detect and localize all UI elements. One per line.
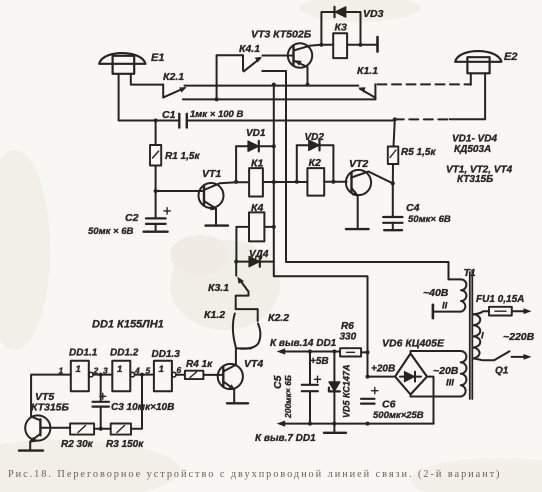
wire gate2 out to gate3	[135, 374, 154, 376]
svg-text:II: II	[442, 301, 448, 312]
wire +20V rail to bridge	[368, 376, 396, 378]
transformer T1 winding II	[461, 279, 466, 311]
wire E2 left lead	[470, 73, 472, 85]
svg-text:50мк × 6В: 50мк × 6В	[88, 226, 134, 237]
svg-text:VD3: VD3	[363, 8, 384, 20]
wire contacts to VT4 collector	[236, 347, 251, 365]
svg-text:К1.1: К1.1	[357, 65, 378, 77]
transistor VT3	[288, 43, 322, 84]
node rail C5	[308, 422, 312, 426]
svg-text:Т1: Т1	[464, 267, 476, 279]
wire R4 to VT4 base	[203, 374, 223, 376]
speaker E1	[99, 53, 145, 74]
svg-text:330: 330	[340, 332, 357, 343]
wire VD2 legs	[297, 145, 334, 182]
transistor VT1	[199, 182, 237, 224]
fuse FU1	[489, 307, 512, 316]
node VT3 emitter on bus	[306, 83, 310, 87]
svg-text:VT1: VT1	[202, 168, 221, 180]
svg-text:К1: К1	[251, 158, 263, 170]
svg-text:С1: С1	[162, 109, 176, 121]
svg-text:200мк× 6Б: 200мк× 6Б	[283, 375, 293, 419]
svg-text:R4 1к: R4 1к	[186, 359, 213, 370]
bridge rectifier VD6	[395, 354, 427, 395]
ground VT5	[19, 449, 43, 451]
wire bottom rail with arrow to DD1 pin 7	[277, 421, 434, 427]
relay K2	[307, 168, 324, 196]
svg-text:VT4: VT4	[244, 358, 263, 370]
node VD1 right	[272, 144, 276, 148]
svg-text:КТ315Б: КТ315Б	[31, 402, 70, 414]
capacitor C6	[361, 388, 378, 404]
logic gate DD1.3	[154, 361, 176, 391]
svg-text:КД503А: КД503А	[454, 144, 491, 155]
wire dashed line to E2 lower	[395, 118, 450, 120]
wire bus upper line	[185, 85, 359, 87]
svg-text:Q1: Q1	[495, 366, 509, 377]
node VT2 collector	[391, 181, 395, 185]
svg-text:С6: С6	[382, 399, 396, 411]
wire gate1 input	[31, 375, 71, 417]
node bus2/R1	[154, 119, 158, 123]
capacitor C5	[302, 352, 321, 424]
svg-text:+20В: +20В	[371, 364, 395, 375]
svg-text:R6: R6	[341, 321, 354, 332]
node VD2 left	[295, 180, 299, 184]
node K4.1 feed on rail	[215, 97, 219, 101]
ground C4	[384, 229, 402, 231]
svg-text:DD1.1: DD1.1	[69, 348, 98, 359]
transformer T1 winding III	[461, 351, 467, 397]
wire winding II top	[449, 278, 462, 280]
node VD4 left	[234, 260, 238, 264]
svg-text:VD6 КЦ405Е: VD6 КЦ405Е	[382, 338, 445, 350]
capacitor C1	[179, 114, 187, 128]
capacitor C3	[93, 375, 109, 429]
svg-text:6: 6	[177, 365, 182, 375]
svg-text:К3: К3	[335, 22, 347, 34]
wire C4 to ground	[392, 223, 394, 230]
resistor R3	[111, 424, 131, 435]
capacitor C2	[146, 208, 170, 224]
node R6 right	[366, 350, 370, 354]
resistor R5	[388, 147, 399, 165]
svg-text:КТ315Б: КТ315Б	[457, 174, 493, 185]
logic gate DD1.1	[71, 361, 93, 391]
svg-text:VD2: VD2	[305, 132, 325, 143]
node VD1 left	[234, 180, 238, 184]
wire C2 to ground	[155, 224, 157, 231]
switch Q1	[474, 351, 532, 360]
wire fuse to mains arrow	[512, 308, 532, 314]
svg-text:К2: К2	[309, 157, 321, 169]
zener diode VD5	[329, 352, 340, 424]
diode VD3	[335, 7, 346, 17]
wire winding II bottom to stub	[433, 311, 461, 313]
wire VD3 loop	[321, 12, 360, 45]
svg-text:С2: С2	[125, 212, 139, 224]
svg-text:R1 1,5к: R1 1,5к	[165, 151, 200, 162]
wire gate3 output to R4	[176, 374, 185, 376]
wire dashed line to E2 upper	[378, 83, 471, 85]
svg-text:500мк×25В: 500мк×25В	[373, 410, 424, 421]
svg-text:Е1: Е1	[151, 52, 164, 64]
svg-text:Е2: Е2	[504, 51, 517, 63]
svg-text:С3 10мк×10В: С3 10мк×10В	[111, 402, 174, 413]
svg-text:R2 30к: R2 30к	[61, 439, 94, 450]
svg-text:С4: С4	[406, 202, 420, 214]
svg-text:1: 1	[76, 364, 81, 375]
svg-text:Рис.18. Переговорное устройств: Рис.18. Переговорное устройство с двухпр…	[8, 469, 501, 480]
svg-text:DD1.2: DD1.2	[110, 348, 139, 359]
svg-text:I: I	[481, 331, 484, 342]
wire K4 right lead	[264, 226, 273, 228]
svg-text:1мк × 100 В: 1мк × 100 В	[190, 109, 243, 120]
svg-text:~40В: ~40В	[423, 287, 449, 299]
wire main vertical from bus to +20V	[274, 85, 368, 377]
wire bridge top to winding III	[411, 351, 461, 354]
node C5 top	[308, 350, 312, 354]
ground VT1	[206, 224, 229, 226]
svg-text:DD1.3: DD1.3	[152, 349, 181, 360]
node main vertical mid	[272, 180, 276, 184]
svg-text:FU1 0,15А: FU1 0,15А	[476, 294, 524, 305]
svg-text:К1.2: К1.2	[204, 309, 225, 321]
resistor R1	[150, 145, 161, 166]
wire winding I top to fuse	[474, 311, 490, 314]
wire E2 right lead	[484, 73, 486, 119]
wire bridge bottom to winding III	[411, 395, 461, 397]
svg-text:50мк× 6В: 50мк× 6В	[408, 214, 451, 225]
relay K4	[249, 212, 264, 241]
svg-text:К2.1: К2.1	[163, 71, 184, 83]
relay contact K2.1	[163, 85, 186, 98]
svg-text:К4.1: К4.1	[239, 43, 260, 55]
svg-text:1: 1	[117, 364, 122, 375]
wire K3 to terminal	[347, 44, 377, 46]
node rail C6	[366, 422, 370, 426]
node rail VD5	[332, 422, 336, 426]
wire VT1 collector line through K1 to K2	[237, 181, 347, 183]
svg-text:~20В: ~20В	[433, 365, 459, 377]
svg-text:К2.2: К2.2	[268, 312, 289, 324]
wire gate1 out to gate2	[93, 374, 112, 376]
node VT1 base	[154, 189, 158, 193]
wire K4.1 lower contact to transformer bus	[262, 71, 448, 279]
wire bridge right to rail	[427, 377, 434, 424]
node pins 2-3	[99, 373, 103, 377]
capacitor C4	[383, 217, 402, 223]
svg-text:К4: К4	[251, 202, 263, 214]
node VD3 right leg	[359, 43, 363, 47]
terminal stub winding II	[432, 305, 435, 318]
relay contact K1.2	[233, 309, 258, 347]
relay contact K3.1	[236, 262, 249, 310]
ground VT2	[346, 228, 369, 230]
diode VD2	[297, 140, 334, 150]
resistor R6	[340, 348, 361, 356]
logic gate DD1.2	[112, 361, 134, 391]
svg-text:К выв.14 DD1: К выв.14 DD1	[270, 338, 337, 349]
svg-text:+5В: +5В	[310, 356, 329, 367]
svg-text:К3.1: К3.1	[208, 282, 229, 294]
svg-text:К выв.7 DD1: К выв.7 DD1	[255, 433, 316, 444]
svg-text:VД4: VД4	[249, 249, 269, 260]
resistor R2	[70, 424, 94, 435]
wire R6 right to +20V line	[361, 351, 367, 353]
node K4 right	[272, 225, 276, 229]
wire R1 to VT1 base node	[156, 166, 204, 192]
ground symbol	[333, 424, 335, 433]
svg-text:1: 1	[159, 364, 164, 375]
wire R3 up to pin5	[131, 375, 142, 429]
svg-text:R3 150к: R3 150к	[106, 439, 144, 450]
wire lower bus from C1	[187, 120, 395, 122]
wire bus2 down to R5	[394, 119, 395, 146]
svg-text:VD5 КС147А: VD5 КС147А	[342, 365, 352, 418]
diode VD4	[236, 256, 274, 266]
wire K4 left lead	[236, 227, 249, 262]
wire E1 right lead to K2.1	[131, 74, 163, 85]
transformer T1 core	[470, 272, 473, 399]
wire R2 to R3	[94, 428, 111, 430]
relay contact K1.1	[358, 84, 375, 99]
transistor VT5	[25, 415, 70, 449]
svg-text:VT3 КТ502Б: VT3 КТ502Б	[251, 29, 312, 41]
relay K1	[249, 168, 263, 196]
transistor VT4	[218, 364, 243, 403]
speaker E2	[455, 51, 501, 73]
wire +5V rail with arrow to DD1 pin 14	[277, 348, 340, 354]
wire E1 left lead down to C1 line	[119, 74, 180, 121]
transistor VT2	[346, 170, 393, 228]
node VD5 top	[332, 350, 336, 354]
ground VT4	[227, 402, 248, 404]
wire K4.1 to VT3 base	[263, 55, 294, 57]
node pins 4-5	[140, 373, 144, 377]
relay K3	[333, 33, 347, 58]
svg-text:DD1 К155ЛН1: DD1 К155ЛН1	[92, 319, 164, 331]
relay contact K4.1	[217, 55, 262, 99]
wire middle contact rail	[183, 98, 376, 100]
svg-text:VT2: VT2	[349, 158, 368, 170]
relay contact K2.2	[240, 324, 260, 349]
wire bus2 to R1	[155, 121, 157, 146]
wire R5 to VT2 collector node	[392, 164, 394, 217]
diode VD1	[236, 141, 274, 151]
svg-text:VD1- VD4: VD1- VD4	[452, 134, 497, 145]
svg-text:R5 1,5к: R5 1,5к	[401, 147, 436, 158]
wire base node down to C2	[155, 191, 157, 218]
resistor R4	[185, 371, 204, 379]
svg-text:~220В: ~220В	[503, 331, 535, 343]
node VT3 collector	[319, 43, 323, 47]
wire VT3 collector to K3	[321, 44, 333, 46]
node +20V rail	[366, 375, 370, 379]
node C3 bottom	[99, 427, 103, 431]
svg-text:VD1: VD1	[246, 128, 266, 139]
svg-text:III: III	[446, 378, 454, 389]
wire VD1 left leg	[235, 146, 237, 182]
node R5 top	[393, 117, 397, 121]
node VD2 right	[331, 180, 335, 184]
transformer T1 winding I	[474, 314, 481, 358]
terminal stub	[376, 37, 379, 52]
ground C2	[144, 230, 168, 232]
node main vertical on bus	[272, 83, 276, 87]
